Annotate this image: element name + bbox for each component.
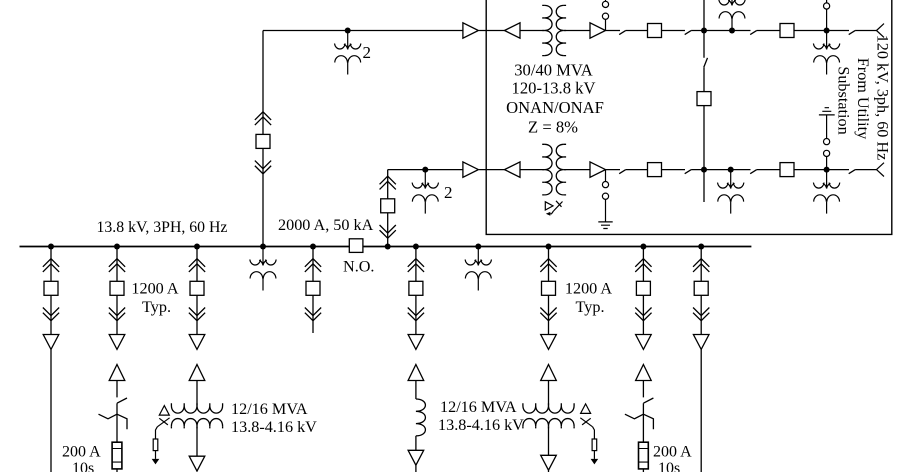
svg-text:2000 A, 50 kA: 2000 A, 50 kA (278, 216, 374, 234)
ground switch down at T2 (605, 170, 607, 222)
breaker square B-89-2 (780, 163, 794, 177)
breaker square A-89-2 (780, 24, 794, 38)
T3 arrester (156, 418, 170, 439)
feeder F1 breaker (43, 259, 59, 321)
feeder F3 wire (196, 247, 198, 457)
ground at T2 (598, 222, 612, 229)
feeder F8 breaker (693, 259, 709, 321)
breaker CB-B1 (drawout) (380, 176, 396, 238)
T2 arrester with disconnect (545, 201, 562, 216)
feeder F6 elbow bottom (541, 455, 557, 470)
feeder F4 breaker (305, 259, 321, 321)
svg-text:ONAN/ONAF: ONAN/ONAF (506, 98, 604, 117)
feeder F7 cutout switch (mirrored) (625, 398, 654, 429)
ground switch stub up right A (826, 0, 828, 31)
main bus (20, 246, 752, 248)
feeder F6 breaker (540, 259, 556, 321)
feeder F3 elbow bottom (189, 456, 205, 471)
svg-text:12/16 MVA: 12/16 MVA (231, 400, 308, 418)
svg-text:120-13.8 kV: 120-13.8 kV (512, 79, 596, 98)
switch B-s1 (619, 170, 625, 174)
feeder F3 breaker (189, 259, 205, 321)
feeder F6 elbow down (541, 335, 557, 350)
feeder F8 elbow (693, 335, 709, 350)
drawout stab left (505, 23, 521, 38)
svg-text:Typ.: Typ. (142, 298, 171, 316)
svg-text:2: 2 (363, 43, 372, 62)
breaker square B-89-1 (648, 163, 662, 177)
T4 delta (581, 404, 591, 414)
svg-text:Z = 8%: Z = 8% (528, 118, 578, 137)
switch A-s3 (750, 31, 756, 35)
svg-text:From Utility: From Utility (854, 58, 872, 140)
transformer T1 30/40 MVA windings (542, 5, 566, 55)
wire: incoming riser 1 (262, 31, 264, 247)
feeder F7 elbow down (636, 335, 652, 350)
drawout stab right (T2 secondary) (590, 162, 606, 177)
tie switch blade (704, 58, 708, 67)
svg-text:10s: 10s (72, 460, 94, 472)
T4 arrester fuse and ground arrow (591, 439, 599, 464)
feeder F5 elbow up (408, 365, 424, 381)
svg-text:2: 2 (444, 183, 453, 202)
bus node dots (48, 244, 54, 250)
feeder F3 elbow up (189, 365, 205, 381)
node tie bottom (701, 167, 707, 173)
transformer T4 12/16 MVA (523, 403, 574, 428)
switch B-s2 (685, 170, 691, 174)
feeder F8 wire (700, 247, 702, 472)
wire: bottom feed line B (388, 169, 877, 171)
svg-text:1200 A: 1200 A (131, 280, 179, 298)
feeder F2 cutout switch (99, 398, 128, 429)
T4 arrester (580, 418, 594, 439)
incoming line A fork (877, 24, 885, 38)
feeder F6 wire (548, 247, 550, 472)
feeder F2 breaker (109, 259, 125, 321)
ground (pointing up) (819, 108, 835, 115)
drawout stab right B (463, 162, 479, 177)
svg-text:12/16 MVA: 12/16 MVA (440, 398, 517, 416)
svg-text:30/40 MVA: 30/40 MVA (514, 60, 593, 79)
transformer T3 12/16 MVA (171, 403, 222, 428)
transformer T2 30/40 MVA windings (542, 144, 566, 195)
switch A-s4 (849, 31, 855, 35)
feeder F5 wire (415, 247, 417, 472)
feeder F2 wire (116, 247, 118, 472)
feeder F2 fuse (112, 442, 122, 469)
CT (2) on line B (412, 170, 438, 214)
svg-text:120 kV, 3ph, 60 Hz: 120 kV, 3ph, 60 Hz (874, 35, 892, 161)
CT below node B right (813, 170, 839, 214)
substation enclosure box (486, 0, 892, 234)
feeder F7 wire (642, 247, 644, 472)
feeder F5 elbow bottom (408, 450, 424, 465)
tie breaker square (697, 92, 711, 106)
wire: top feed line A (263, 30, 877, 32)
switch B-s3 (750, 170, 756, 174)
T3 delta (159, 406, 169, 416)
node B right (824, 167, 830, 173)
feeder F7 elbow up (636, 365, 652, 381)
ground switch up between lines (826, 115, 828, 170)
svg-text:10s: 10s (658, 460, 680, 472)
CT (2) on line A (335, 31, 361, 75)
node A right (824, 28, 830, 34)
drawout stab left B (505, 162, 521, 177)
CT below node A right (813, 31, 839, 75)
svg-text:13.8-4.16 kV: 13.8-4.16 kV (231, 418, 317, 436)
breaker square A-89-1 (648, 24, 662, 38)
PT on bus right (465, 247, 491, 291)
node on line B (422, 167, 428, 173)
wire: incoming riser 2 (387, 170, 389, 247)
feeder F1 elbow (43, 335, 59, 350)
node tie top (701, 28, 707, 34)
tie riser between line A and line B (703, 0, 705, 170)
feeder F5 elbow down (408, 335, 424, 350)
feeder F5 breaker (408, 259, 424, 321)
svg-text:200 A: 200 A (62, 444, 101, 461)
feeder F7 fuse (639, 442, 649, 469)
PT on bus left (250, 247, 276, 291)
svg-text:200 A: 200 A (653, 444, 692, 461)
incoming line B fork (877, 163, 885, 177)
PT below line B (718, 170, 744, 214)
drawout stab right (463, 23, 479, 38)
drawout stab right (T1 secondary) (590, 23, 606, 38)
svg-text:N.O.: N.O. (343, 258, 374, 276)
svg-text:13.8 kV, 3PH, 60 Hz: 13.8 kV, 3PH, 60 Hz (97, 219, 228, 236)
feeder F2 elbow down (109, 335, 125, 350)
feeder F6 elbow up (541, 365, 557, 381)
node PT-B (728, 167, 734, 173)
svg-text:Typ.: Typ. (576, 298, 605, 316)
feeder F3 elbow down (189, 335, 205, 350)
ground switch up at T1 (605, 0, 607, 31)
reactor coil (416, 399, 426, 436)
svg-text:Substation: Substation (835, 66, 853, 134)
node on line A (345, 28, 351, 34)
feeder F4 spare (312, 247, 314, 334)
feeder F2 elbow up (109, 365, 125, 381)
feeder F1 wire (50, 247, 52, 472)
switch A-s2 (685, 31, 691, 35)
PT above line A (719, 0, 745, 31)
svg-text:13.8-4.16 kV: 13.8-4.16 kV (438, 416, 524, 434)
switch A-s1 (619, 31, 625, 35)
node PT-A (729, 28, 735, 34)
bus tie N.O. square (349, 239, 363, 253)
switch B-s4 (849, 170, 855, 174)
T3 arrester fuse and ground arrow (152, 439, 160, 464)
breaker CB-A1 (drawout) (255, 112, 271, 174)
svg-text:1200 A: 1200 A (565, 280, 613, 298)
tie stub below (703, 170, 705, 202)
feeder F7 breaker (635, 259, 651, 321)
